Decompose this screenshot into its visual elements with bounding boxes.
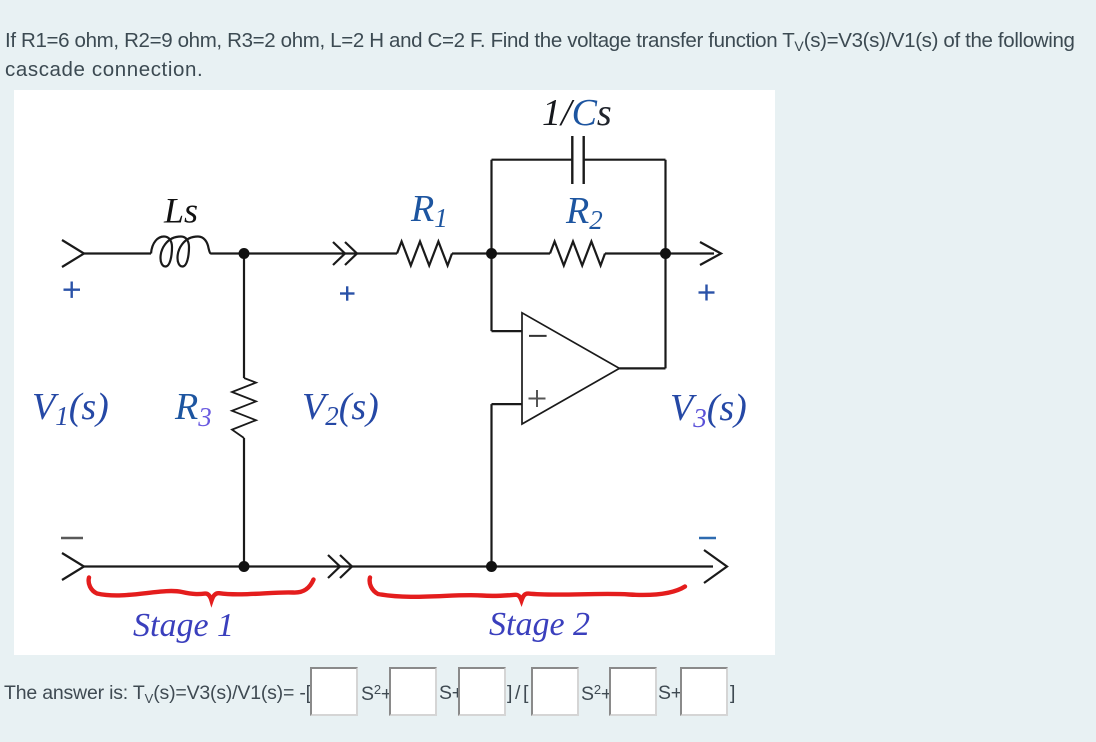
- op-amp U1: [522, 313, 619, 424]
- ]/[ label: [507, 682, 531, 705]
- svg-text:Stage 2: Stage 2: [489, 606, 590, 643]
- s+ label 1: [439, 682, 463, 705]
- white schematic panel: [14, 90, 775, 655]
- polarity plus top left: [64, 282, 81, 298]
- resistor R3: [232, 378, 256, 438]
- inductor Ls: [151, 237, 211, 267]
- feedback top wire right: [584, 159, 666, 161]
- s^2+ label 1: [361, 682, 392, 706]
- polarity minus bottom left: [61, 537, 83, 540]
- node C: [660, 248, 671, 259]
- wire input to inductor: [84, 252, 151, 254]
- node B: [486, 248, 497, 259]
- resistor R2: [550, 242, 605, 266]
- s^2+ label 2: [581, 682, 612, 706]
- junction dots: [239, 248, 672, 572]
- bottom right arrowhead: [704, 550, 727, 583]
- svg-text:V1(s): V1(s): [32, 386, 109, 431]
- feedback right riser down to op-amp output: [664, 160, 666, 369]
- output arrow top right: [666, 252, 715, 254]
- resistor R1: [397, 242, 452, 266]
- node A: [239, 248, 250, 259]
- R3 branch: node A down: [243, 254, 245, 379]
- svg-text:V3(s): V3(s): [670, 387, 747, 433]
- node E: [239, 561, 250, 572]
- svg-text:V2(s): V2(s): [302, 386, 379, 431]
- wire inductor to node A: [211, 252, 244, 254]
- node F: [486, 561, 497, 572]
- problem statement text: [5, 29, 1075, 81]
- wire node B down to op-amp minus: [490, 254, 492, 332]
- answer box 2: [389, 667, 437, 716]
- op-amp plus input wire: [492, 403, 523, 405]
- op-amp minus sign: [529, 335, 547, 337]
- svg-text:R1: R1: [410, 188, 448, 233]
- bottom rail: [62, 553, 84, 580]
- svg-text:Stage 1: Stage 1: [133, 607, 234, 644]
- op-amp output wire: [619, 367, 665, 369]
- red brace stage 2: [370, 578, 685, 601]
- circuit schematic svg: [14, 90, 775, 655]
- wire node B to R2: [492, 252, 551, 254]
- answer box 6: [680, 667, 728, 716]
- wire R1 to node B: [452, 252, 492, 254]
- answer box 5: [609, 667, 657, 716]
- answer box 1: [310, 667, 358, 716]
- wire R2 to node C: [605, 252, 666, 254]
- capacitor 1/Cs plates: [571, 136, 573, 184]
- double arrow top rail: [333, 242, 345, 265]
- answer box 3: [458, 667, 506, 716]
- double arrow bottom rail: [328, 555, 340, 578]
- svg-text:1/Cs: 1/Cs: [542, 92, 612, 134]
- input arrow top left: [62, 240, 84, 267]
- wire node A to R1 with double arrow: [244, 252, 397, 254]
- svg-text:R2: R2: [565, 190, 603, 235]
- answer line text: [4, 682, 311, 706]
- closing bracket: [730, 682, 735, 705]
- svg-text:Ls: Ls: [163, 191, 198, 231]
- feedback branch left riser: [490, 160, 492, 254]
- s+ label 2: [658, 682, 682, 705]
- svg-text:R3: R3: [174, 386, 212, 432]
- feedback top wire left: [492, 159, 573, 161]
- red brace stage 1: [89, 578, 314, 601]
- polarity plus right: [699, 285, 715, 301]
- answer box 4: [531, 667, 579, 716]
- polarity minus bottom right: [699, 537, 716, 540]
- op-amp plus sign: [529, 390, 546, 407]
- polarity plus mid: [340, 286, 355, 300]
